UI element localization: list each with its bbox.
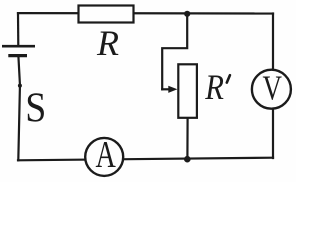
svg-text:S: S <box>25 84 46 131</box>
svg-text:R: R <box>204 68 224 108</box>
svg-text:R: R <box>96 23 119 63</box>
svg-text:V: V <box>262 68 282 107</box>
svg-text:A: A <box>95 134 115 176</box>
